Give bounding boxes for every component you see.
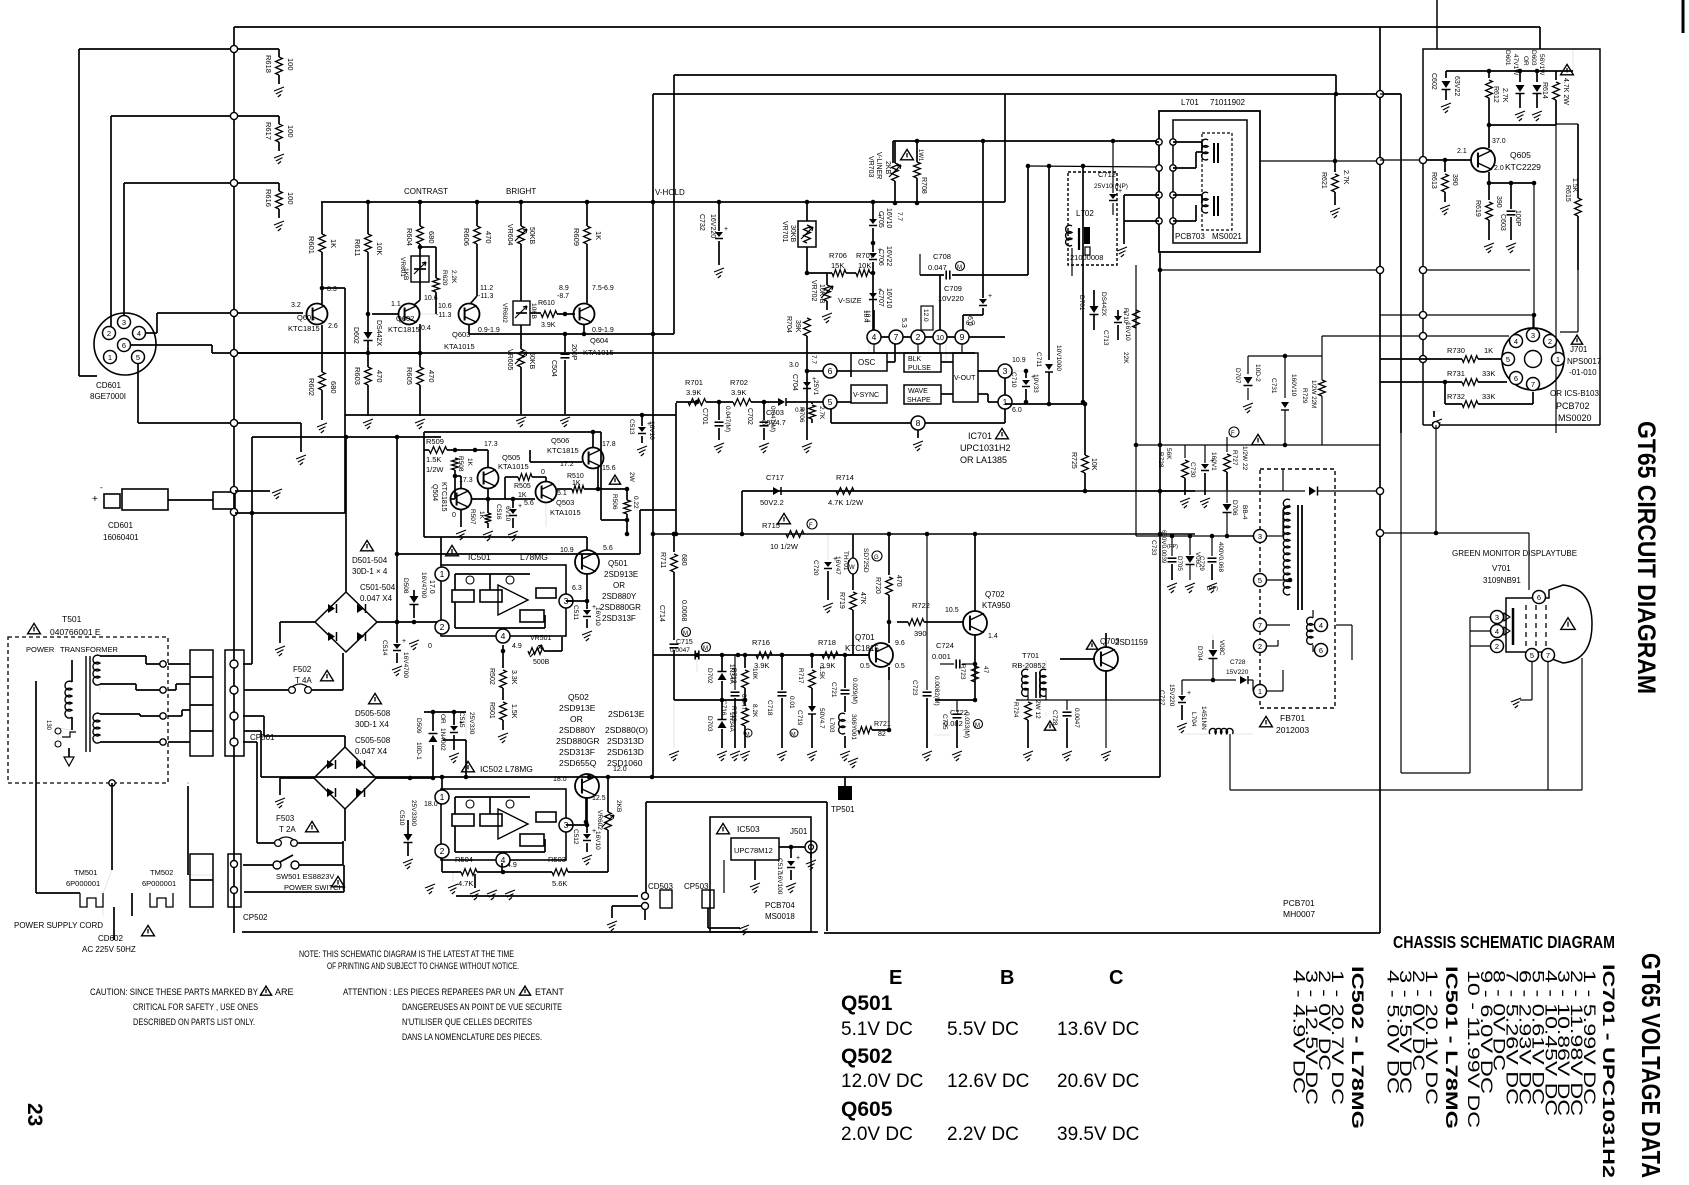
svg-text:C516: C516 <box>495 504 502 520</box>
yoke pins <box>1156 139 1162 145</box>
svg-text:50KB: 50KB <box>528 227 535 244</box>
box top right outer <box>1423 49 1600 425</box>
osc box <box>851 353 887 371</box>
svg-text:OR: OR <box>570 714 583 724</box>
test point TP501 <box>844 777 846 786</box>
svg-text:680: 680 <box>680 554 687 566</box>
svg-text:J501: J501 <box>790 827 808 836</box>
wire <box>706 401 733 403</box>
resistor R718 <box>822 652 838 659</box>
svg-text:AC 225V 50HZ: AC 225V 50HZ <box>82 945 136 954</box>
wire y315 <box>1380 314 1419 316</box>
node <box>230 45 237 52</box>
svg-text:R604: R604 <box>405 228 414 246</box>
label IC502 <box>462 761 475 771</box>
svg-text:17.0: 17.0 <box>428 580 435 594</box>
svg-text:10K: 10K <box>858 261 871 270</box>
svg-text:IC501: IC501 <box>468 552 491 562</box>
svg-text:0.0047: 0.0047 <box>1073 708 1080 728</box>
svg-text:R721: R721 <box>874 721 891 728</box>
svg-text:BB-4: BB-4 <box>1241 505 1248 520</box>
svg-text:10V220: 10V220 <box>938 294 964 303</box>
svg-text:R717: R717 <box>797 668 804 684</box>
svg-text:R613: R613 <box>1430 172 1437 189</box>
svg-text:4: 4 <box>872 332 877 342</box>
resistor R506 <box>626 489 628 500</box>
svg-text:4.7K 2W: 4.7K 2W <box>1562 78 1569 105</box>
wire q702 emitter <box>974 635 976 700</box>
wire vertical x653 <box>652 94 654 777</box>
svg-text:C603: C603 <box>1499 214 1506 231</box>
svg-text:Q502: Q502 <box>568 692 589 702</box>
svg-text:25V1: 25V1 <box>812 380 819 396</box>
wire d509 rail to y777 <box>443 739 466 741</box>
svg-text:10: 10 <box>936 335 944 342</box>
svg-text:1K: 1K <box>594 231 603 240</box>
svg-text:2KB: 2KB <box>615 800 622 812</box>
svg-text:470: 470 <box>484 231 493 244</box>
capacitor C511 <box>583 610 591 615</box>
wire contrast/v-hold rail y202 <box>321 201 1005 203</box>
wire y49 rail <box>79 48 279 50</box>
wire yoke feed y166 <box>1028 166 1159 167</box>
wire l702 coil down <box>1071 248 1073 276</box>
resistor R505 <box>505 476 518 478</box>
wire cd503 riser <box>645 802 647 892</box>
svg-text:C730: C730 <box>1189 462 1196 478</box>
wire y313 to Q601 <box>238 312 303 314</box>
diode D706 <box>1223 504 1232 511</box>
wire inner rail y71 <box>1446 70 1573 72</box>
pot VR604 <box>519 200 524 205</box>
svg-text:(PP): (PP) <box>1207 586 1218 592</box>
svg-text:37.0: 37.0 <box>1492 138 1506 145</box>
svg-text:56K: 56K <box>1165 448 1172 460</box>
svg-text:C714: C714 <box>658 605 665 622</box>
connector CD601 plug (cable) <box>104 494 120 508</box>
svg-text:5: 5 <box>828 397 833 407</box>
svg-text:VR703: VR703 <box>867 156 874 178</box>
transistor Q502 <box>575 774 599 798</box>
svg-text:KTA1015: KTA1015 <box>444 342 475 351</box>
svg-text:2: 2 <box>916 332 921 342</box>
svg-text:F: F <box>1231 431 1235 437</box>
svg-text:2SD1159: 2SD1159 <box>1115 638 1148 647</box>
resistor R502 <box>502 651 504 668</box>
svg-text:4 - 4.9V DC: 4 - 4.9V DC <box>1289 970 1307 1094</box>
capacitor C732 <box>718 202 720 231</box>
inductor L703 <box>839 713 845 734</box>
svg-text:16V220: 16V220 <box>709 214 716 238</box>
svg-text:VR602: VR602 <box>501 303 508 323</box>
svg-text:OR LA1385: OR LA1385 <box>960 455 1007 465</box>
svg-text:+: + <box>92 494 98 505</box>
svg-text:30D-1 X4: 30D-1 X4 <box>355 720 389 729</box>
svg-text:5: 5 <box>1506 355 1510 364</box>
svg-text:+: + <box>796 855 800 862</box>
svg-text:V-HOLD: V-HOLD <box>655 188 685 197</box>
svg-text:10V1000: 10V1000 <box>1055 345 1062 371</box>
label D505-508 <box>369 693 382 703</box>
svg-text:R712: R712 <box>730 668 737 684</box>
wire fb1 bottom <box>1182 679 1213 681</box>
svg-text:MH0007: MH0007 <box>1283 909 1315 919</box>
capacitor C703 <box>778 398 785 406</box>
svg-text:1: 1 <box>1258 687 1262 696</box>
wire tube right return <box>1581 658 1583 790</box>
svg-text:500B: 500B <box>533 659 550 666</box>
resistor R712 <box>743 653 748 658</box>
svg-text:NOTE: THIS SCHEMATIC DIAGRAM I: NOTE: THIS SCHEMATIC DIAGRAM IS THE LATE… <box>299 949 514 959</box>
IC503 box <box>710 817 811 932</box>
resistor R606 <box>475 200 480 205</box>
svg-text:2SD313F: 2SD313F <box>559 747 595 757</box>
transformer T501 label <box>28 623 41 633</box>
pin 9 <box>955 330 969 344</box>
wire y536 rail <box>1136 535 1253 537</box>
svg-text:PCB701: PCB701 <box>1283 898 1315 908</box>
wire y491 to flyback <box>1160 490 1278 492</box>
transistor Q504 <box>451 489 472 510</box>
svg-text:R619: R619 <box>1474 200 1481 217</box>
wire top edge stub x1437 <box>1436 0 1438 49</box>
svg-text:0: 0 <box>428 643 432 650</box>
transformer secondary 1 <box>93 655 100 685</box>
label D501-504 30D-1 x4 <box>361 540 374 550</box>
svg-text:1K: 1K <box>572 480 581 487</box>
svg-text:3109NB91: 3109NB91 <box>1483 576 1521 585</box>
diode D705 <box>1186 556 1195 563</box>
svg-text:KTA1015: KTA1015 <box>583 348 614 357</box>
svg-text:R718: R718 <box>745 680 746 681</box>
wire emitter line y499 <box>472 498 535 500</box>
svg-text:T501: T501 <box>62 614 82 624</box>
box bottom pcb702 <box>1423 424 1600 426</box>
svg-text:2: 2 <box>107 329 111 338</box>
svg-text:R501: R501 <box>488 702 495 719</box>
wire y513 rail <box>235 512 345 514</box>
svg-text:0.047: 0.047 <box>740 694 747 711</box>
svg-text:6V10: 6V10 <box>504 506 511 522</box>
pin 1 <box>998 395 1012 409</box>
wire q506 emitter <box>597 467 599 489</box>
svg-text:KTA1015: KTA1015 <box>498 462 529 471</box>
svg-text:R510: R510 <box>567 473 584 480</box>
pin 3 ic502 <box>559 818 573 832</box>
svg-text:6: 6 <box>828 366 833 376</box>
svg-text:5: 5 <box>1530 651 1534 660</box>
svg-text:3.9K: 3.9K <box>686 388 701 397</box>
wire left drop x79 <box>78 49 80 376</box>
svg-text:4.9: 4.9 <box>507 862 517 869</box>
svg-text:C504: C504 <box>550 360 557 377</box>
svg-text:M: M <box>683 631 688 637</box>
zener D603 <box>1535 69 1540 74</box>
capacitor C730 <box>1201 464 1209 469</box>
wire j701 pin3 top <box>1427 314 1533 316</box>
svg-text:630V0.0039: 630V0.0039 <box>1160 530 1167 564</box>
svg-text:BLK: BLK <box>908 356 922 363</box>
svg-text:C710: C710 <box>1010 372 1017 388</box>
svg-text:L704: L704 <box>1190 712 1197 727</box>
pin 4 ic502 <box>496 853 510 867</box>
label 12.0 box <box>921 306 933 330</box>
ic502 internals <box>452 814 474 826</box>
svg-text:4: 4 <box>137 329 141 338</box>
resistor R612 <box>1487 69 1492 74</box>
capacitor C514 <box>393 644 401 649</box>
wire y423 stub <box>238 422 301 424</box>
svg-text:5.6: 5.6 <box>603 545 613 552</box>
svg-text:R714: R714 <box>836 473 854 482</box>
resistor R614 <box>1555 71 1557 80</box>
resistor R723 <box>972 666 979 682</box>
svg-text:2.0: 2.0 <box>1494 165 1504 172</box>
svg-text:C706: C706 <box>877 249 884 266</box>
svg-text:IC701 - UPC1031H2: IC701 - UPC1031H2 <box>1599 964 1618 1178</box>
svg-text:CD601: CD601 <box>96 381 121 390</box>
resistor R504 <box>442 871 461 873</box>
flyback pins <box>1254 530 1267 543</box>
wire pin5 left <box>807 401 823 403</box>
capacitor C719 <box>808 706 816 712</box>
wire tube pin7 return <box>1547 662 1549 790</box>
svg-text:2SD880(O): 2SD880(O) <box>605 725 648 735</box>
svg-text:F502: F502 <box>293 665 312 674</box>
vertical x1160 <box>1159 251 1161 777</box>
svg-text:20.6V DC: 20.6V DC <box>1057 1071 1139 1092</box>
wire fb to right <box>1336 624 1352 626</box>
svg-text:6: 6 <box>1319 646 1323 655</box>
svg-text:C515: C515 <box>458 712 465 728</box>
svg-text:C732: C732 <box>698 214 705 231</box>
resistor R711 <box>673 534 675 552</box>
resistor R603 <box>367 353 369 367</box>
wire tube top <box>1380 532 1529 534</box>
resistor R503 <box>552 869 568 876</box>
capacitor C711 <box>1047 402 1052 407</box>
svg-text:-01-010: -01-010 <box>1569 368 1597 377</box>
svg-text:2: 2 <box>1495 642 1499 651</box>
wire q604 emitter <box>583 325 585 334</box>
wire x1380 vertical nodes <box>1376 90 1383 97</box>
wire pcb702 gnd <box>1433 411 1435 417</box>
diode D704 <box>1209 650 1218 657</box>
svg-text:Q601: Q601 <box>297 313 315 322</box>
wire rail y655 <box>653 654 869 656</box>
svg-text:-11.3: -11.3 <box>436 312 452 319</box>
wire ic501 top <box>441 536 587 538</box>
svg-text:2SD913E: 2SD913E <box>604 570 638 579</box>
svg-text:0.0047: 0.0047 <box>670 647 690 654</box>
wire rail y437 <box>252 436 441 438</box>
svg-text:GREEN MONITOR DISPLAYTUBE: GREEN MONITOR DISPLAYTUBE <box>1452 549 1577 558</box>
svg-text:10.9: 10.9 <box>947 599 948 600</box>
svg-text:470: 470 <box>375 370 384 383</box>
svg-text:R725: R725 <box>1070 452 1077 469</box>
capacitor C726 <box>1045 712 1047 716</box>
svg-text:1K: 1K <box>466 458 473 467</box>
svg-text:KTA1015: KTA1015 <box>550 508 581 517</box>
svg-text:1: 1 <box>440 792 445 802</box>
transistor Q604 <box>574 304 595 325</box>
svg-text:3: 3 <box>1258 532 1262 541</box>
wire x1322 up <box>1321 336 1323 356</box>
wire pin5 drop <box>137 364 139 423</box>
svg-text:0.047: 0.047 <box>928 263 947 272</box>
wire y534 rail <box>653 533 1195 535</box>
wire y554 link <box>395 552 400 557</box>
wire rail y402 R701 R702 <box>676 401 697 403</box>
wire vertical x674 <box>673 75 675 334</box>
fuse F502 <box>244 689 288 691</box>
svg-text:47V1W: 47V1W <box>1512 54 1519 76</box>
wire fb top diode <box>1282 469 1284 491</box>
wire <box>751 401 778 403</box>
svg-text:TP501: TP501 <box>831 805 855 814</box>
diode D509 <box>432 712 434 731</box>
svg-text:16V47: 16V47 <box>834 556 841 575</box>
svg-text:M: M <box>745 732 750 738</box>
svg-text:11.2: 11.2 <box>480 285 493 292</box>
pin 1 ic502 <box>435 790 449 804</box>
wire base left <box>1380 159 1419 161</box>
svg-text:2SD1060: 2SD1060 <box>607 758 643 768</box>
svg-text:5: 5 <box>1258 576 1262 585</box>
ic701 wires <box>873 344 875 353</box>
svg-text:0: 0 <box>452 512 456 519</box>
svg-text:Q701: Q701 <box>855 633 875 642</box>
connector strip <box>190 650 213 756</box>
svg-text:CHASSIS SCHEMATIC DIAGRAM: CHASSIS SCHEMATIC DIAGRAM <box>1393 932 1615 952</box>
svg-text:0.047 X4: 0.047 X4 <box>360 594 393 603</box>
svg-text:V08C: V08C <box>1218 640 1225 656</box>
node bus y353 <box>230 349 237 356</box>
svg-text:C709: C709 <box>944 284 962 293</box>
svg-text:Q602: Q602 <box>396 314 414 323</box>
capacitor C713 <box>1114 316 1122 321</box>
wire main left bus <box>233 27 235 933</box>
svg-text:R701: R701 <box>685 378 703 387</box>
pin 4 <box>867 330 881 344</box>
capacitor C504 <box>564 334 566 352</box>
svg-text:C715: C715 <box>676 639 693 646</box>
svg-text:C724: C724 <box>936 641 954 650</box>
svg-text:15V220: 15V220 <box>1226 669 1249 676</box>
svg-text:Q605: Q605 <box>841 1098 893 1121</box>
svg-text:6: 6 <box>1537 593 1541 602</box>
svg-text:C708: C708 <box>933 252 951 261</box>
svg-text:680: 680 <box>329 381 338 394</box>
svg-text:R507: R507 <box>469 509 476 525</box>
transformer primary coil <box>65 681 72 718</box>
svg-text:3: 3 <box>1531 331 1535 340</box>
svg-text:22K: 22K <box>1122 352 1129 364</box>
svg-text:DS442X: DS442X <box>375 320 382 346</box>
svg-text:T701: T701 <box>1022 651 1039 660</box>
svg-text:MS0021: MS0021 <box>1212 232 1242 241</box>
wire r503 to vr602 <box>568 871 608 873</box>
svg-text:SD725D: SD725D <box>862 548 869 573</box>
capacitor C714 <box>670 643 679 645</box>
grounds ic502 <box>470 890 480 900</box>
wire bridge2 bottom <box>344 809 346 841</box>
svg-text:B: B <box>1000 967 1014 989</box>
wire bridge2 right <box>376 777 433 779</box>
capacitor C723 <box>925 532 930 537</box>
svg-text:4: 4 <box>501 631 506 641</box>
svg-text:R502: R502 <box>488 668 495 685</box>
svg-text:16V10: 16V10 <box>594 831 601 850</box>
svg-text:470: 470 <box>895 575 902 587</box>
svg-text:KTC1815: KTC1815 <box>440 482 447 512</box>
svg-text:16060401: 16060401 <box>103 533 139 542</box>
svg-text:1: 1 <box>1003 397 1008 407</box>
resistor R704 <box>804 318 811 336</box>
svg-text:D505-508: D505-508 <box>355 709 391 718</box>
svg-text:50V4.7: 50V4.7 <box>762 418 786 427</box>
resistor R501 <box>500 702 507 720</box>
svg-text:2.7K: 2.7K <box>1342 170 1349 185</box>
capacitor C729 <box>1211 536 1213 556</box>
label J701 <box>1571 335 1582 344</box>
svg-text:M: M <box>791 732 796 738</box>
svg-text:R610: R610 <box>538 300 555 307</box>
svg-text:OR: OR <box>439 714 446 724</box>
pin 6 <box>823 364 837 378</box>
pin 7 <box>889 330 903 344</box>
capacitor C707 <box>869 293 877 298</box>
svg-text:5: 5 <box>136 353 140 362</box>
svg-text:R614: R614 <box>1541 82 1548 99</box>
svg-text:5.6K: 5.6K <box>552 879 567 888</box>
svg-text:R716: R716 <box>752 638 770 647</box>
svg-text:2SD1159: 2SD1159 <box>1115 647 1116 648</box>
resistor R617 <box>278 116 280 124</box>
svg-text:390: 390 <box>1495 196 1502 208</box>
svg-text:R506: R506 <box>611 494 618 510</box>
svg-text:DS442X: DS442X <box>1100 292 1107 317</box>
svg-text:2.0V DC: 2.0V DC <box>841 1124 913 1145</box>
wire y353 long rail <box>238 352 975 354</box>
svg-text:R727: R727 <box>1231 450 1238 466</box>
wire pin4 to y313 <box>146 332 157 334</box>
svg-text:F503: F503 <box>276 814 295 823</box>
transistor Q603 <box>459 304 480 325</box>
svg-text:MS0018: MS0018 <box>765 912 795 921</box>
svg-text:1: 1 <box>108 353 112 362</box>
svg-text:7: 7 <box>1258 621 1262 630</box>
svg-text:2SD913E: 2SD913E <box>559 703 596 713</box>
svg-text:25V330: 25V330 <box>468 712 475 735</box>
svg-text:0.029(M): 0.029(M) <box>851 678 858 704</box>
svg-text:C505-508: C505-508 <box>355 736 391 745</box>
wire q605 emitter <box>1488 172 1490 183</box>
svg-text:C728: C728 <box>1051 710 1058 726</box>
svg-text:C: C <box>1109 967 1123 989</box>
svg-text:D701: D701 <box>1078 295 1085 311</box>
svg-text:TM501: TM501 <box>74 868 97 877</box>
svg-text:Q702: Q702 <box>985 590 1005 599</box>
svg-text:IC501 - L78MG: IC501 - L78MG <box>1442 966 1461 1129</box>
svg-text:9.6: 9.6 <box>895 640 905 647</box>
svg-text:PCB702: PCB702 <box>1556 401 1590 411</box>
svg-text:M: M <box>957 265 962 271</box>
svg-text:PCB704: PCB704 <box>765 901 795 910</box>
wire x1005 riser <box>1004 94 1006 202</box>
svg-text:Q603: Q603 <box>452 330 470 339</box>
diode D702 <box>696 655 698 672</box>
